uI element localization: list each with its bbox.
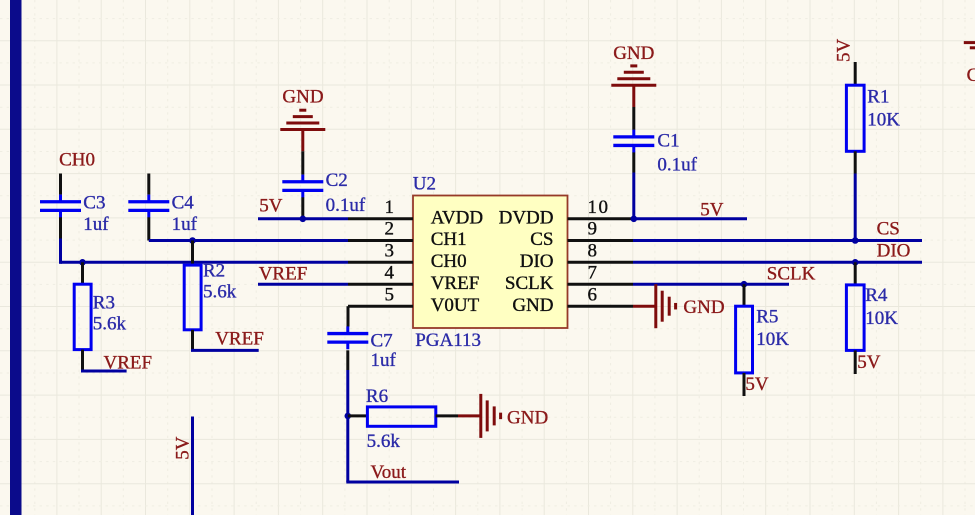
wire Vout stub (346, 481, 459, 484)
svg-text:0.1uf: 0.1uf (657, 154, 697, 175)
wire VREF row (pin 4) (258, 283, 348, 286)
svg-text:7: 7 (588, 262, 598, 283)
junction DIO row at R4 (852, 259, 859, 266)
wire VREF stub at R2 (191, 349, 259, 352)
junction SCLK row at R5 (741, 281, 748, 288)
junction pin 10 row at C1 (631, 216, 638, 223)
svg-text:GND: GND (282, 86, 323, 107)
pin 8 (DIO) stub (568, 261, 634, 264)
pin 9 (CS) stub (568, 239, 634, 242)
svg-text:5.6k: 5.6k (203, 281, 237, 302)
svg-text:C3: C3 (83, 192, 105, 213)
capacitor C3 (59, 174, 62, 195)
svg-text:5: 5 (385, 284, 395, 305)
svg-text:DIO: DIO (520, 251, 554, 272)
svg-text:C1: C1 (657, 130, 679, 151)
svg-text:R6: R6 (366, 386, 388, 407)
svg-text:1uf: 1uf (371, 350, 397, 371)
svg-text:GND: GND (512, 295, 553, 316)
svg-text:5.6k: 5.6k (93, 314, 127, 335)
svg-text:DVDD: DVDD (499, 207, 554, 228)
svg-text:GND: GND (683, 297, 724, 318)
wire CH0 row (pin 3) (61, 261, 349, 264)
svg-text:1uf: 1uf (83, 214, 109, 235)
junction CS row at R1 (852, 237, 859, 244)
power port GND (pin 6) (633, 305, 655, 308)
wire 5V column (bottom left) (191, 417, 194, 515)
pin 3 (CH0) stub (348, 261, 413, 264)
svg-text:8: 8 (588, 241, 598, 262)
junction at R6 (345, 413, 352, 420)
svg-text:5V: 5V (173, 436, 194, 460)
wire SCLK row (pin 7) (633, 283, 789, 286)
svg-text:CH0: CH0 (59, 150, 95, 171)
resistor R1 (854, 62, 857, 85)
power port GND (right of R6) (458, 414, 480, 417)
svg-text:3: 3 (385, 241, 395, 262)
pin 1 (AVDD) stub (348, 217, 413, 220)
svg-text:VREF: VREF (431, 273, 480, 294)
svg-text:2: 2 (385, 219, 395, 240)
svg-text:0.1uf: 0.1uf (326, 195, 366, 216)
wire pin 5 corner to C7 (347, 306, 350, 326)
junction pin1 row at C2 (300, 216, 307, 223)
wire 5V row (pin 1) (258, 217, 348, 220)
svg-text:10: 10 (588, 197, 610, 218)
wire DIO row (pin 8) (633, 261, 922, 264)
svg-text:U2: U2 (413, 174, 436, 195)
IC U2 PGA113 body (413, 196, 568, 329)
pin 7 (SCLK) stub (568, 283, 634, 286)
svg-text:10K: 10K (867, 109, 900, 130)
svg-text:AVDD: AVDD (431, 207, 483, 228)
svg-text:R1: R1 (867, 87, 889, 108)
svg-text:V0UT: V0UT (431, 295, 480, 316)
resistor R4 (854, 262, 857, 285)
svg-text:5.6k: 5.6k (367, 431, 401, 452)
svg-text:Vout: Vout (371, 462, 407, 483)
svg-text:5V: 5V (834, 39, 855, 63)
svg-text:10K: 10K (756, 329, 789, 350)
svg-text:4: 4 (385, 262, 395, 283)
svg-text:C2: C2 (326, 170, 348, 191)
capacitor C1 (632, 107, 635, 130)
wire VREF stub at R3 (81, 370, 127, 373)
svg-text:R2: R2 (203, 260, 225, 281)
svg-text:PGA113: PGA113 (415, 330, 481, 351)
wire C7 to Vout corner (346, 370, 349, 482)
C7 lower pin (346, 350, 349, 370)
svg-text:C7: C7 (371, 331, 393, 352)
svg-text:1uf: 1uf (172, 214, 198, 235)
power port GND (partial, right edge) (964, 41, 975, 44)
svg-text:R4: R4 (865, 285, 888, 306)
svg-text:CH0: CH0 (431, 251, 467, 272)
svg-text:5V: 5V (745, 374, 769, 395)
svg-text:CH1: CH1 (431, 229, 467, 250)
svg-text:GND: GND (967, 65, 975, 86)
sheet border bar (10, 0, 22, 515)
wire R1 to CS row (854, 174, 857, 241)
svg-text:CS: CS (877, 219, 900, 240)
capacitor C2 (301, 151, 304, 174)
wire CH1 row (pin 2) (149, 239, 348, 242)
pin 2 (CH1) stub (348, 239, 413, 242)
resistor R2 (191, 241, 194, 266)
pin 10 (DVDD) stub (568, 217, 634, 220)
wire C3 to CH0 row (59, 239, 62, 264)
svg-text:VREF: VREF (215, 329, 264, 350)
junction on CH1 row at R2 (189, 237, 196, 244)
wire C1 to pin 10 row (632, 173, 635, 219)
svg-text:CS: CS (530, 229, 553, 250)
svg-text:6: 6 (588, 284, 598, 305)
svg-text:5V: 5V (857, 352, 881, 373)
resistor R5 (743, 284, 746, 306)
wire 5V (pin 10 row) (634, 217, 747, 220)
svg-text:C4: C4 (172, 192, 195, 213)
svg-text:5V: 5V (259, 196, 283, 217)
pin 4 (VREF) stub (348, 283, 413, 286)
svg-text:R3: R3 (93, 292, 115, 313)
capacitor C7 (346, 326, 349, 333)
svg-text:GND: GND (507, 408, 548, 429)
svg-text:VREF: VREF (259, 264, 308, 285)
svg-text:GND: GND (613, 43, 654, 64)
svg-text:9: 9 (588, 219, 598, 240)
svg-text:5V: 5V (700, 199, 724, 220)
svg-text:1: 1 (385, 197, 395, 218)
wire CS row (pin 9) (633, 239, 922, 242)
capacitor C4 (147, 174, 150, 195)
svg-text:VREF: VREF (104, 352, 153, 373)
resistor R6 (348, 414, 368, 417)
svg-text:R5: R5 (756, 307, 778, 328)
junction on CH0 row at R3 (79, 259, 86, 266)
svg-text:DIO: DIO (877, 240, 911, 261)
pin 5 (V0UT) stub (348, 305, 413, 308)
svg-text:10K: 10K (865, 308, 898, 329)
svg-text:SCLK: SCLK (505, 273, 554, 294)
resistor R3 (81, 262, 84, 284)
svg-text:SCLK: SCLK (767, 264, 816, 285)
pin 6 (GND) stub (568, 305, 634, 308)
